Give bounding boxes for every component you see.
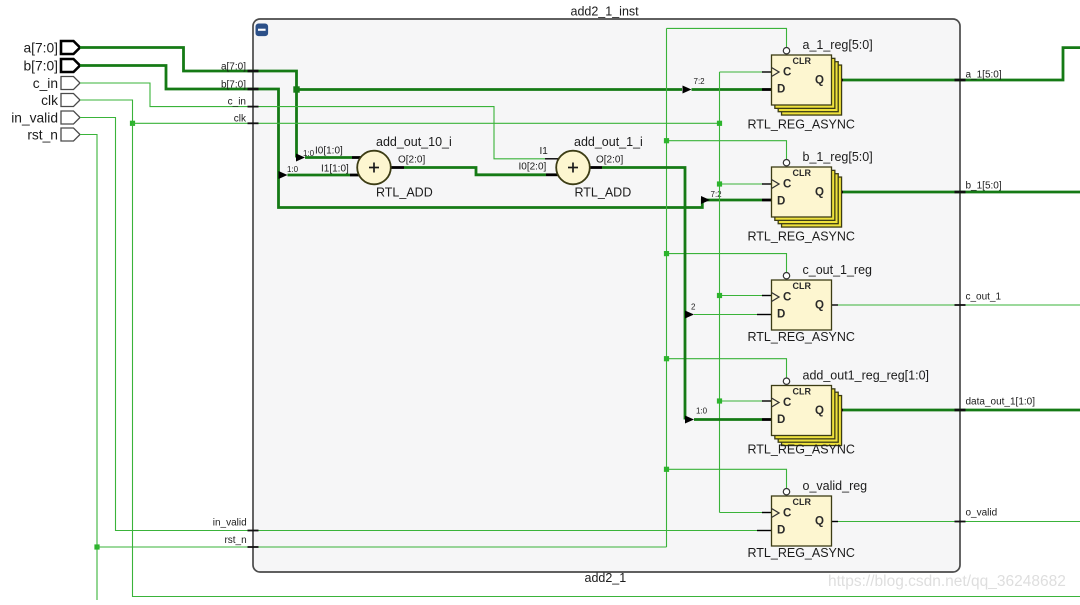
input port a[7:0] bbox=[61, 41, 80, 54]
svg-text:https://blog.csdn.net/qq_36248: https://blog.csdn.net/qq_36248682 bbox=[828, 573, 1066, 590]
svg-text:7:2: 7:2 bbox=[711, 190, 723, 199]
svg-text:CLR: CLR bbox=[793, 281, 812, 291]
svg-text:b_1_reg[5:0]: b_1_reg[5:0] bbox=[803, 150, 873, 164]
rip arrow 2 (carry to c_out_1_reg) bbox=[685, 311, 694, 319]
junction rst_n branch o_valid_reg bbox=[664, 467, 669, 472]
svg-text:o_valid_reg: o_valid_reg bbox=[803, 479, 868, 493]
svg-text:a[7:0]: a[7:0] bbox=[221, 62, 246, 73]
rip arrow 1:0 (sum to add_out1_reg_reg) bbox=[685, 416, 694, 424]
svg-text:add_out_1_i: add_out_1_i bbox=[574, 135, 643, 149]
svg-text:a_1[5:0]: a_1[5:0] bbox=[966, 70, 1002, 81]
wire sum to add_out1_reg_reg D bbox=[694, 418, 762, 421]
wire clk bottom run bbox=[133, 123, 1080, 596]
wire rst_n (port down) bbox=[80, 135, 97, 601]
rip arrow 7:2 (a) bbox=[683, 86, 692, 94]
module box add2_1 bbox=[253, 19, 960, 572]
wire c_in bbox=[80, 83, 545, 159]
junction rst_n branch add_out1_reg_reg bbox=[664, 356, 669, 361]
svg-text:rst_n: rst_n bbox=[27, 127, 58, 142]
wire data_out_1[1:0] output bbox=[832, 409, 1080, 412]
pin tick c_out_1 (right border) bbox=[955, 304, 966, 306]
pin tick in_valid (left border) bbox=[248, 530, 259, 532]
wire a[1:0] down to adder I0 bbox=[295, 90, 298, 158]
wire clk branch to a_1_reg C bbox=[720, 71, 763, 73]
register add_out1_reg_reg (RTL_REG_ASYNC) bbox=[772, 378, 842, 446]
register b_1_reg (RTL_REG_ASYNC) bbox=[772, 160, 842, 228]
svg-text:CLR: CLR bbox=[793, 387, 812, 397]
pin tick rst_n (left border) bbox=[248, 546, 259, 548]
wire rst_n branch to b_1_reg CLR bbox=[667, 141, 787, 160]
svg-text:RTL_ADD: RTL_ADD bbox=[575, 186, 632, 200]
pin tick c_in (left border) bbox=[248, 106, 259, 108]
wire rst_n into box bbox=[97, 546, 667, 548]
stub b_1_reg D bbox=[762, 199, 772, 202]
wire a_1[5:0] output bbox=[832, 48, 1080, 80]
svg-text:b[7:0]: b[7:0] bbox=[23, 58, 58, 73]
svg-text:add_out_10_i: add_out_10_i bbox=[376, 135, 452, 149]
pin tick data_out_1[1:0] (right border) bbox=[955, 409, 966, 412]
svg-text:Q: Q bbox=[815, 516, 824, 528]
wire clk vertical rail bbox=[719, 72, 721, 513]
svg-text:I0[1:0]: I0[1:0] bbox=[315, 146, 343, 157]
svg-text:c_in: c_in bbox=[228, 97, 246, 108]
svg-text:C: C bbox=[783, 179, 791, 191]
pin tick b[7:0] (left border) bbox=[248, 88, 259, 91]
junction rst_n bbox=[94, 544, 99, 549]
junction clk branch add_out1_reg_reg bbox=[717, 398, 722, 403]
svg-text:O[2:0]: O[2:0] bbox=[398, 155, 425, 166]
wire clk into box bbox=[133, 122, 720, 124]
svg-text:D: D bbox=[777, 84, 785, 96]
wire rst_n branch to a_1_reg CLR bbox=[667, 28, 787, 47]
svg-text:2: 2 bbox=[691, 303, 696, 312]
svg-text:7:2: 7:2 bbox=[694, 77, 706, 86]
input port b[7:0] bbox=[61, 59, 80, 72]
svg-text:Q: Q bbox=[815, 75, 824, 87]
wire b to b_1_reg D bbox=[710, 199, 762, 202]
svg-text:add2_1_inst: add2_1_inst bbox=[571, 5, 640, 19]
svg-text:add_out1_reg_reg[1:0]: add_out1_reg_reg[1:0] bbox=[803, 369, 930, 383]
svg-text:a[7:0]: a[7:0] bbox=[23, 40, 58, 55]
svg-text:rst_n: rst_n bbox=[224, 535, 246, 546]
svg-text:D: D bbox=[777, 309, 785, 321]
wire clk (port to junction) bbox=[80, 100, 133, 123]
input port rst_n bbox=[61, 128, 80, 141]
rip arrow 7:2 (b) bbox=[701, 196, 710, 204]
svg-text:clk: clk bbox=[234, 114, 247, 125]
svg-text:RTL_REG_ASYNC: RTL_REG_ASYNC bbox=[748, 118, 855, 132]
junction clk outside bbox=[130, 121, 135, 126]
wire a bus to a_1_reg D bbox=[297, 88, 683, 91]
wire add_out_1 (adder2 O, down the rail) bbox=[589, 168, 685, 420]
stub a_1_reg D bbox=[762, 88, 772, 91]
svg-text:c_out_1: c_out_1 bbox=[966, 292, 1002, 303]
wire b to adder1 I1 bbox=[288, 174, 351, 177]
stub c_out_1_reg D bbox=[757, 314, 772, 316]
input port in_valid bbox=[61, 111, 80, 124]
svg-text:o_valid: o_valid bbox=[966, 508, 998, 519]
pin tick o_valid (right border) bbox=[955, 521, 966, 523]
register c_out_1_reg (RTL_REG_ASYNC) bbox=[772, 273, 832, 331]
stub a_1_reg C bbox=[762, 71, 772, 73]
pin tick b_1[5:0] (right border) bbox=[955, 191, 966, 194]
stub b_1_reg C bbox=[762, 183, 772, 185]
wire rst_n branch to c_out_1_reg CLR bbox=[667, 254, 787, 273]
svg-text:RTL_REG_ASYNC: RTL_REG_ASYNC bbox=[748, 330, 855, 344]
wire a bus (port to box) bbox=[80, 48, 297, 90]
wire rst_n branch to add_out1_reg_reg CLR bbox=[667, 359, 787, 378]
junction rst_n branch b_1_reg bbox=[664, 138, 669, 143]
svg-text:Q: Q bbox=[815, 187, 824, 199]
wire in_valid bbox=[80, 118, 757, 531]
wire b bus (port to box) bbox=[80, 66, 710, 208]
svg-text:Q: Q bbox=[815, 405, 824, 417]
svg-text:RTL_REG_ASYNC: RTL_REG_ASYNC bbox=[748, 230, 855, 244]
svg-text:C: C bbox=[783, 67, 791, 79]
junction clk rail entry bbox=[717, 121, 722, 126]
stub adder1 I0 bbox=[352, 156, 362, 159]
pin tick clk (left border) bbox=[248, 122, 259, 124]
svg-text:RTL_REG_ASYNC: RTL_REG_ASYNC bbox=[748, 443, 855, 457]
junction rst_n branch c_out_1_reg bbox=[664, 251, 669, 256]
wire c_out_1 output bbox=[832, 304, 1080, 306]
junction clk branch b_1_reg bbox=[717, 181, 722, 186]
svg-text:c_out_1_reg: c_out_1_reg bbox=[803, 263, 873, 277]
svg-text:1:0: 1:0 bbox=[287, 165, 299, 174]
wire clk branch to b_1_reg C bbox=[720, 183, 763, 185]
svg-text:a_1_reg[5:0]: a_1_reg[5:0] bbox=[803, 38, 873, 52]
pin tick a_1[5:0] (right border) bbox=[955, 79, 966, 82]
svg-text:add2_1: add2_1 bbox=[585, 571, 627, 585]
register o_valid_reg (RTL_REG_ASYNC) bbox=[772, 489, 832, 547]
svg-text:D: D bbox=[777, 525, 785, 537]
svg-text:data_out_1[1:0]: data_out_1[1:0] bbox=[966, 397, 1036, 408]
stub adder1 I1 bbox=[350, 174, 360, 177]
svg-text:I0[2:0]: I0[2:0] bbox=[519, 162, 547, 173]
svg-text:b_1[5:0]: b_1[5:0] bbox=[966, 181, 1002, 192]
stub c_out_1_reg C bbox=[762, 295, 772, 297]
input port clk bbox=[61, 94, 80, 107]
rip arrow 1:0 (b to I1) bbox=[279, 171, 288, 179]
wire add_out_10 (adder1 O to adder2 I0) bbox=[390, 168, 560, 175]
wire clk branch to c_out_1_reg C bbox=[720, 295, 763, 297]
svg-text:Q: Q bbox=[815, 300, 824, 312]
pin tick a[7:0] (left border) bbox=[248, 70, 259, 73]
svg-text:O[2:0]: O[2:0] bbox=[596, 155, 623, 166]
stub add_out1_reg_reg C bbox=[762, 400, 772, 402]
wire clk branch to add_out1_reg_reg C bbox=[720, 400, 763, 402]
stub o_valid_reg D bbox=[757, 530, 772, 532]
input port c_in bbox=[61, 77, 80, 90]
wire a to D pin bbox=[692, 88, 763, 91]
svg-text:D: D bbox=[777, 414, 785, 426]
wire carry to c_out_1_reg D bbox=[694, 314, 757, 316]
svg-text:b[7:0]: b[7:0] bbox=[221, 80, 246, 91]
svg-text:C: C bbox=[783, 397, 791, 409]
rip arrow 1:0 (a to I0) bbox=[296, 154, 305, 162]
junction clk branch c_out_1_reg bbox=[717, 293, 722, 298]
svg-text:1:0: 1:0 bbox=[696, 407, 708, 416]
wire o_valid output bbox=[832, 521, 1080, 523]
junction a bus bbox=[293, 86, 299, 92]
svg-text:RTL_REG_ASYNC: RTL_REG_ASYNC bbox=[748, 546, 855, 560]
svg-text:CLR: CLR bbox=[793, 168, 812, 178]
stub add_out1_reg_reg D bbox=[762, 418, 772, 421]
wire clk branch to o_valid_reg C bbox=[720, 512, 763, 514]
svg-text:D: D bbox=[777, 196, 785, 208]
svg-text:in_valid: in_valid bbox=[213, 518, 247, 529]
svg-text:in_valid: in_valid bbox=[11, 110, 58, 125]
svg-text:C: C bbox=[783, 508, 791, 520]
stub o_valid_reg C bbox=[762, 512, 772, 514]
wire rst_n branch to o_valid_reg CLR bbox=[667, 469, 787, 488]
stub adder2 I1 bbox=[545, 158, 560, 160]
svg-text:I1[1:0]: I1[1:0] bbox=[321, 164, 349, 175]
svg-text:c_in: c_in bbox=[33, 76, 58, 91]
register a_1_reg (RTL_REG_ASYNC) bbox=[772, 48, 842, 116]
wire rst_n vertical rail bbox=[666, 28, 668, 547]
svg-text:RTL_ADD: RTL_ADD bbox=[376, 186, 433, 200]
collapse button bbox=[256, 24, 269, 37]
svg-text:clk: clk bbox=[41, 93, 58, 108]
adder add_out_1_i (RTL_ADD) bbox=[556, 151, 590, 185]
adder add_out_10_i (RTL_ADD) bbox=[357, 151, 391, 185]
svg-text:CLR: CLR bbox=[793, 497, 812, 507]
wire b_1[5:0] output bbox=[832, 191, 1080, 194]
svg-text:CLR: CLR bbox=[793, 56, 812, 66]
svg-text:C: C bbox=[783, 292, 791, 304]
svg-text:I1: I1 bbox=[540, 146, 549, 157]
wire a to adder1 I0 bbox=[305, 156, 352, 159]
